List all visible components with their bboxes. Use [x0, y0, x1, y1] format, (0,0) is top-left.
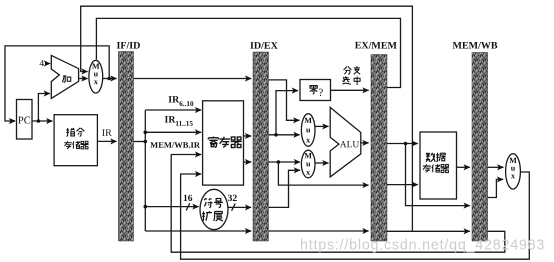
node A junction [274, 133, 278, 137]
mux M2 ALU input 2 [301, 150, 315, 178]
wire IR from ID/EX to EX/MEM bottom [269, 230, 369, 232]
label instruction memory 指令 [66, 128, 84, 136]
svg-text:IR6..10: IR6..10 [168, 95, 194, 108]
node immediate junction [144, 205, 148, 209]
mux M0 PC source select [89, 60, 103, 93]
adder (PC+4) [51, 55, 78, 98]
node B junction [277, 160, 281, 164]
svg-text:IR: IR [102, 128, 112, 139]
label zero test 零 [310, 86, 317, 94]
label adder 加 [62, 76, 70, 83]
label data memory 存储器 [423, 164, 449, 172]
label instruction memory 存储器 [64, 141, 88, 149]
sign extend unit [200, 189, 228, 229]
PC register [17, 100, 33, 140]
svg-text:https://blog.csdn.net/qq_42824: https://blog.csdn.net/qq_42824983 [300, 238, 545, 254]
svg-text:4: 4 [39, 59, 44, 69]
svg-text:IR11..15: IR11..15 [165, 115, 194, 128]
svg-text:?: ? [318, 87, 323, 99]
wire A from ID/EX to mux M1 [269, 134, 300, 136]
label sign extend 符号 [204, 198, 223, 207]
wire mux M2 to ALU [315, 162, 329, 164]
wire ALU output to EX/MEM [361, 142, 369, 144]
wire MEM/WB ALU result to mux M3 lower input [488, 179, 504, 197]
svg-text:x: x [306, 136, 310, 145]
wire ALU result bypass to MEM/WB [406, 144, 470, 206]
wire constant 4 into adder [45, 63, 50, 65]
node IR 11..15 junction [144, 131, 148, 135]
pipeline register IF/ID [118, 52, 133, 242]
wire write data into register file [181, 172, 530, 259]
svg-text:ALU: ALU [340, 140, 360, 150]
data memory [420, 132, 457, 199]
node IR junction [144, 140, 148, 144]
svg-text:u: u [306, 125, 311, 134]
svg-text:PC: PC [18, 115, 31, 126]
wire MEM/WB.IR writeback into register file [171, 155, 505, 253]
svg-text:IF/ID: IF/ID [116, 41, 140, 52]
wire data memory output to MEM/WB [457, 166, 470, 168]
svg-text:MEM/WB: MEM/WB [453, 40, 498, 51]
svg-text:32: 32 [228, 194, 238, 204]
mux M1 letters [304, 116, 312, 145]
label register file 寄存器 [208, 137, 241, 148]
pipeline register EX/MEM [371, 55, 387, 242]
wire mux M0 output to IF/ID [103, 78, 117, 80]
wire PC to instruction memory [32, 120, 52, 122]
node PC output junction [37, 119, 41, 123]
wire ALU result from EX/MEM to data memory [387, 143, 418, 145]
wire IR 6..10 to register file [145, 109, 201, 111]
label branch taken 分支 [344, 66, 361, 74]
wire B bypass to EX/MEM [278, 162, 368, 185]
label branch taken 选中 [342, 76, 360, 84]
svg-text:x: x [306, 168, 310, 177]
mux M0 letters [92, 62, 100, 86]
wire MEM/WB to mux M3 upper input [488, 166, 504, 168]
width tick 16 [186, 203, 190, 210]
label data memory 数据 [426, 153, 446, 162]
wire IR from EX/MEM to MEM/WB bottom [387, 230, 470, 232]
wire NPC from IF/ID to ID/EX [134, 78, 252, 80]
wire IR output to IF/ID [97, 140, 116, 142]
wire IR distribution vertical [144, 110, 146, 231]
wire PC feedback loop from mux output to PC [5, 46, 109, 121]
wire sign extend output to ID/EX [228, 206, 251, 208]
svg-text:x: x [511, 171, 515, 180]
wire B from ID/EX to mux M2 [269, 161, 301, 163]
wire A to zero test [276, 91, 298, 135]
svg-text:MEM/WB.IR: MEM/WB.IR [150, 140, 201, 150]
svg-text:M: M [304, 116, 312, 125]
pipeline register MEM/WB [472, 53, 488, 242]
svg-text:ID/EX: ID/EX [250, 41, 279, 52]
wire register file output B to ID/EX [244, 161, 252, 163]
wire IR to ID/EX bottom [145, 230, 251, 232]
node ALU result junction [404, 142, 408, 146]
wire IR from IF/ID to distribution node [134, 141, 146, 143]
node adder output junction [82, 77, 86, 81]
zero test box [300, 80, 331, 101]
label sign extend 扩展 [202, 211, 223, 221]
svg-text:16: 16 [183, 194, 193, 204]
node mux M0 output junction [107, 77, 111, 81]
wire PC to adder [38, 94, 50, 122]
wire IR 11..15 to register file [145, 131, 201, 133]
wire NPC from ID/EX to mux M1 [269, 80, 300, 120]
instruction memory [54, 115, 97, 166]
mux M2 letters [304, 151, 312, 177]
svg-text:x: x [94, 77, 98, 86]
wire inner top loop from EX/MEM branch-taken to PC mux select [96, 18, 400, 87]
pipeline register ID/EX [253, 52, 269, 241]
wire outer top loop from MEM/WB bottom to PC mux upper input [81, 6, 413, 231]
svg-text:EX/MEM: EX/MEM [355, 40, 398, 51]
mux M1 ALU input 1 [301, 114, 315, 147]
wire immediate from ID/EX to mux M2 [269, 170, 301, 207]
wire zero test to EX/MEM branch taken [331, 89, 369, 91]
width tick 32 [232, 204, 236, 211]
mux M3 writeback select [506, 154, 521, 189]
wire immediate to sign extend [145, 206, 198, 208]
mux M3 letters [509, 156, 517, 180]
wire mux M1 to ALU [315, 125, 329, 127]
wire register file output A to ID/EX [244, 135, 252, 137]
wire adder output to PC mux [79, 78, 88, 80]
register file [203, 101, 244, 185]
ALU [330, 107, 361, 176]
wire store data from EX/MEM to data memory [387, 184, 418, 186]
